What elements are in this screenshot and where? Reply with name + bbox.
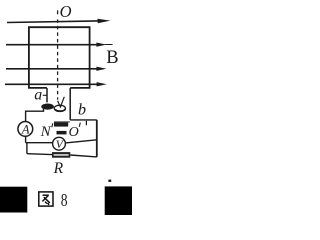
- field line 1 (top, arrow right): [7, 21, 98, 23]
- node O (axis top dash): [57, 10, 59, 14]
- wire voltmeter to right rail: [65, 140, 96, 143]
- svg-text:O: O: [60, 2, 72, 21]
- resistor R1 box: [52, 152, 70, 158]
- svg-text:b: b: [78, 102, 86, 119]
- field line 4: [5, 83, 97, 85]
- svg-text:a: a: [34, 87, 42, 104]
- wire brush b to right rail: [70, 119, 97, 121]
- caption glyph 图: [39, 192, 53, 206]
- svg-text:N: N: [40, 124, 52, 140]
- wire brush a to ammeter: [26, 108, 44, 121]
- bearing bar near O' (lower): [57, 131, 67, 135]
- axis OO' (dashed): [57, 19, 59, 99]
- brush mark (check shape right of axis): [58, 97, 65, 107]
- wire ammeter to left node: [25, 136, 27, 142]
- svg-text:O: O: [69, 125, 79, 140]
- slip ring right: [54, 105, 65, 111]
- wire left node down to resistor branch: [26, 143, 28, 154]
- svg-text:8: 8: [61, 190, 68, 210]
- caption black block right: [105, 186, 132, 215]
- wire to resistor: [27, 153, 52, 156]
- svg-text:A: A: [21, 122, 30, 136]
- field line 2: [6, 44, 97, 46]
- junction tick on b wire: [85, 121, 87, 126]
- caption speck: [108, 180, 111, 182]
- coil lead wire left: [46, 88, 48, 102]
- bearing bar near O' (upper): [54, 122, 68, 126]
- svg-text:R: R: [53, 160, 64, 177]
- ammeter A1: [18, 121, 33, 136]
- svg-text:B: B: [106, 48, 118, 68]
- voltmeter V1: [53, 137, 66, 150]
- coil lead wire right / brush-b drop: [69, 88, 71, 120]
- field line 3: [6, 68, 97, 70]
- wire resistor to right rail: [70, 155, 97, 157]
- right rail: [96, 120, 98, 157]
- coil frame (rectangle with bottom gap): [29, 27, 90, 88]
- wire left node to voltmeter: [26, 142, 53, 144]
- slip ring left: [41, 104, 54, 110]
- caption black block left: [0, 187, 27, 213]
